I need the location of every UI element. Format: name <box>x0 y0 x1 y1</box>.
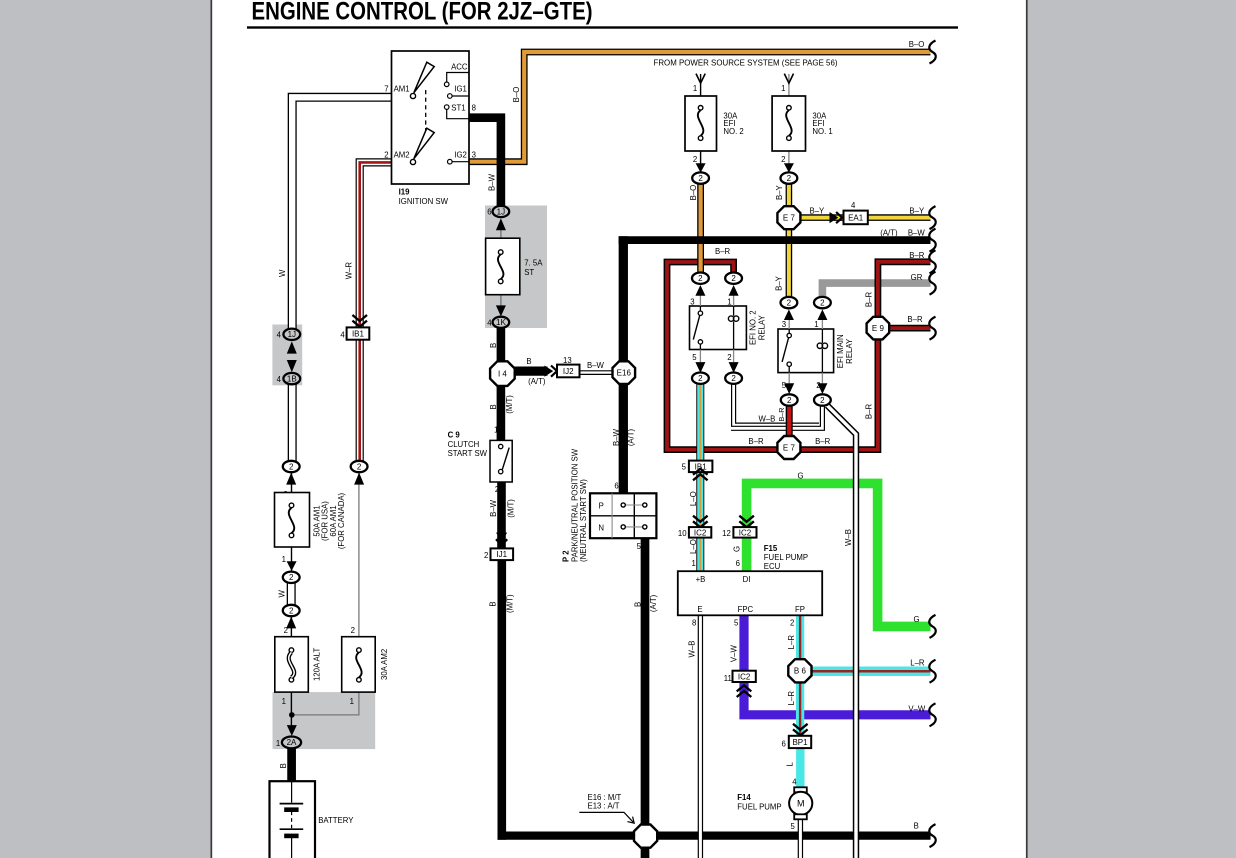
svg-text:2: 2 <box>698 174 703 183</box>
svg-text:E13 : A/T: E13 : A/T <box>588 801 620 810</box>
svg-text:1: 1 <box>494 425 498 434</box>
svg-text:B–O: B–O <box>512 87 521 103</box>
svg-text:B–R: B–R <box>907 315 923 324</box>
arrow down into oval at EFI NO.2 relay pin2 <box>729 362 739 373</box>
svg-text:ENGINE CONTROL (FOR 2JZ–GTE): ENGINE CONTROL (FOR 2JZ–GTE) <box>252 0 593 26</box>
wire B-W from ignition ST1 to 1J connector <box>469 113 501 206</box>
park/neutral switch P contacts <box>621 503 647 507</box>
svg-text:5: 5 <box>682 462 687 471</box>
svg-text:BP1: BP1 <box>792 738 808 747</box>
lead line through 30A AM2 fuse (gray) <box>294 473 359 715</box>
svg-text:FROM POWER SOURCE SYSTEM (SEE: FROM POWER SOURCE SYSTEM (SEE PAGE 56) <box>654 58 838 67</box>
arrow up into 1J left <box>287 341 297 353</box>
ignition switch I19 box <box>392 51 470 184</box>
svg-text:IGNITION SW: IGNITION SW <box>399 197 449 206</box>
connector IJ1 <box>491 548 514 560</box>
title underline <box>247 26 958 28</box>
svg-text:ST: ST <box>524 268 534 277</box>
battery box <box>270 781 316 858</box>
svg-text:F15: F15 <box>764 544 778 553</box>
svg-text:B–R: B–R <box>748 437 764 446</box>
ground junction E16/E13 <box>634 825 657 848</box>
fuse 7.5A ST box <box>486 238 520 295</box>
fuse element 30A AM2 <box>356 648 361 682</box>
svg-text:AM1: AM1 <box>394 84 410 93</box>
wire B-Y from EFI NO.1 fuse through E7 to EFI main relay pin 3 <box>786 184 793 297</box>
arrow up into oval above 50A AM1 <box>286 473 296 485</box>
gray highlight box behind 7.5A ST fuse <box>485 206 547 329</box>
arrow down into oval below 50A AM1 <box>287 561 297 571</box>
svg-text:4: 4 <box>277 331 282 340</box>
clutch start switch contacts <box>499 444 510 474</box>
svg-text:2: 2 <box>384 151 388 160</box>
wire B-W between IJ2 and E16 <box>580 370 614 375</box>
connector IC2 pin 10 <box>689 527 711 538</box>
svg-text:FUEL PUMP: FUEL PUMP <box>764 553 808 562</box>
wire L-R from ECU FP through B6 to BP1 <box>796 615 804 737</box>
svg-text:(M/T): (M/T) <box>506 499 515 518</box>
park/neutral switch N contacts <box>621 525 647 529</box>
svg-text:V–W: V–W <box>908 704 926 713</box>
svg-text:IB1: IB1 <box>352 329 365 338</box>
fuse 30A AM2 box <box>342 637 376 692</box>
svg-text:1: 1 <box>727 297 731 306</box>
svg-text:7. 5A: 7. 5A <box>524 259 543 268</box>
battery internal symbol <box>280 781 304 858</box>
lead line through 50A AM1 fuse <box>291 472 293 571</box>
arrow up into EFI NO.2 relay pin3 oval <box>695 285 705 296</box>
break B-R upper <box>929 250 935 273</box>
break B-Y <box>929 206 935 229</box>
fuel pump motor M <box>789 792 812 815</box>
wire B (M/T) from I4 to clutch start switch <box>497 385 506 440</box>
svg-text:5: 5 <box>734 618 739 627</box>
break B <box>929 824 935 847</box>
chevron arrow down above IB1 left <box>352 315 367 327</box>
svg-text:IC2: IC2 <box>694 528 707 537</box>
svg-text:(M/T): (M/T) <box>505 594 514 613</box>
connector oval 2 above 120A ALT <box>283 605 300 616</box>
svg-text:2: 2 <box>787 298 792 307</box>
svg-text:6: 6 <box>487 208 491 217</box>
connector oval 2 below EFI NO.2 relay pin 5 <box>692 373 709 384</box>
svg-text:5: 5 <box>790 822 795 831</box>
svg-text:3: 3 <box>690 297 694 306</box>
svg-text:1: 1 <box>814 320 818 329</box>
svg-text:FP: FP <box>795 605 805 614</box>
chevron arrow down above BP1 <box>793 724 808 736</box>
svg-text:B–R: B–R <box>777 408 786 422</box>
svg-text:13: 13 <box>563 356 572 365</box>
svg-text:RELAY: RELAY <box>757 314 766 340</box>
svg-text:2: 2 <box>790 618 794 627</box>
svg-text:P 2: P 2 <box>561 550 570 562</box>
fuse element 50A AM1 <box>289 503 294 538</box>
svg-text:2: 2 <box>731 274 736 283</box>
svg-text:IJ2: IJ2 <box>563 367 574 376</box>
junction B6 <box>788 659 811 682</box>
svg-text:F14: F14 <box>737 793 751 802</box>
break GR <box>929 272 935 295</box>
svg-text:L–R: L–R <box>787 635 796 650</box>
svg-text:2: 2 <box>289 462 294 471</box>
svg-text:5: 5 <box>692 353 697 362</box>
chevron arrow up below IB1 <box>693 469 708 481</box>
svg-text:2: 2 <box>787 174 792 183</box>
wire B-O from ignition switch IG2 to power source <box>469 52 931 162</box>
wire W-B from EFI NO.2 relay pin 2 <box>734 382 819 425</box>
svg-text:L–O: L–O <box>689 539 698 554</box>
svg-text:1K: 1K <box>496 318 506 327</box>
junction dot below 120A ALT <box>289 712 295 718</box>
svg-text:IG1: IG1 <box>454 84 467 93</box>
connector oval 2 below 50A AM1 <box>283 572 300 583</box>
svg-text:2: 2 <box>484 551 488 560</box>
lead line into EFI NO.2 fuse <box>700 74 702 172</box>
svg-text:(NEUTRAL START SW): (NEUTRAL START SW) <box>579 479 588 562</box>
fuse 30A EFI NO.2 box <box>685 96 717 151</box>
svg-text:EFI MAIN: EFI MAIN <box>836 334 845 368</box>
fuel pump ECU F15 box <box>678 571 822 615</box>
svg-text:B: B <box>489 404 498 409</box>
page left border <box>211 0 213 858</box>
arrow down into 1B <box>287 360 297 372</box>
break V-W <box>929 703 935 726</box>
fuse 50A AM1 box <box>275 493 310 548</box>
arrow into oval below EFI NO.1 fuse <box>784 163 794 172</box>
svg-text:BATTERY: BATTERY <box>318 816 354 825</box>
svg-text:+B: +B <box>696 575 706 584</box>
svg-text:2: 2 <box>698 374 703 383</box>
ignition switch IG2 contact <box>448 159 469 164</box>
arrow up into EFI main relay pin3 oval <box>784 309 794 320</box>
svg-text:E16: E16 <box>617 369 632 378</box>
arrow down into oval at EFI main relay pin2 <box>817 383 827 394</box>
svg-text:B–R: B–R <box>715 247 731 256</box>
svg-text:RELAY: RELAY <box>845 338 854 364</box>
svg-text:ST1: ST1 <box>451 104 465 113</box>
white page <box>212 0 1027 858</box>
connector oval 1J (W wire) <box>283 329 300 340</box>
svg-text:CLUTCH: CLUTCH <box>448 440 480 449</box>
svg-text:B: B <box>489 601 498 606</box>
lead line into EFI NO.1 fuse (gray) <box>788 74 790 172</box>
svg-text:E 7: E 7 <box>783 214 796 223</box>
connector arrow into IJ1 <box>496 533 507 546</box>
leader arrow to ground junction <box>579 812 634 823</box>
svg-text:L–R: L–R <box>787 691 796 706</box>
connector oval 2 at EFI NO.2 relay pin 3 <box>692 273 709 284</box>
svg-text:4: 4 <box>851 201 856 210</box>
svg-text:2: 2 <box>820 298 825 307</box>
connector EA1 <box>844 211 868 225</box>
svg-text:W–R: W–R <box>345 262 354 280</box>
ignition switch mechanical link (dashed) <box>425 90 427 131</box>
lead lines EFI MAIN relay pins <box>789 320 822 383</box>
svg-text:B–O: B–O <box>909 40 925 49</box>
svg-text:B–R: B–R <box>909 251 925 260</box>
svg-text:START SW: START SW <box>448 449 488 458</box>
gray highlight box behind 1J/1B connectors <box>272 325 302 386</box>
svg-text:1: 1 <box>282 697 286 706</box>
svg-text:2: 2 <box>820 396 825 405</box>
connector IJ2 <box>557 365 580 378</box>
svg-text:1J: 1J <box>288 330 296 339</box>
svg-text:1: 1 <box>781 84 785 93</box>
fuse 120A ALT box <box>275 637 309 692</box>
relay EFI NO.2 switch <box>693 306 702 350</box>
wire L-O from EFI NO.2 relay pin 5 to fuel pump ECU +B <box>696 382 704 571</box>
chevron arrow down above IC2 pin10 <box>693 516 708 528</box>
svg-text:(A/T): (A/T) <box>880 228 898 237</box>
svg-text:B–Y: B–Y <box>909 207 925 216</box>
arrowhead into EFI NO.1 fuse <box>784 74 793 84</box>
svg-text:2: 2 <box>781 155 785 164</box>
junction E7 (lower) <box>777 436 800 459</box>
fuse element 30A EFI NO.1 <box>786 106 791 141</box>
ignition switch ACC contact <box>444 73 468 87</box>
relay EFI NO.2 box <box>690 306 747 350</box>
wire W from 1B connector down <box>288 384 297 462</box>
ignition switch AM1 contact and rotor lever <box>410 62 434 98</box>
connector oval 2 below EFI main relay pin 2 <box>814 394 831 405</box>
wire G (green) fuel pump ECU DI circuit <box>747 483 931 626</box>
wire B (A/T) from I4 to IJ2 connector <box>514 367 547 376</box>
svg-text:2A: 2A <box>287 738 297 747</box>
fuse element 7.5A ST <box>498 250 503 284</box>
svg-text:B–Y: B–Y <box>775 275 784 291</box>
connector oval 2 below EFI NO.2 relay pin 2 <box>725 373 742 384</box>
relay EFI NO.2 coil <box>728 306 738 350</box>
svg-text:B–W: B–W <box>587 361 605 370</box>
relay EFI MAIN coil <box>817 329 827 373</box>
svg-text:B: B <box>526 357 531 366</box>
wire GR (gray) to EFI main relay pin 1 <box>822 283 930 299</box>
svg-text:B–Y: B–Y <box>775 184 784 200</box>
svg-text:W: W <box>278 269 287 277</box>
wire B ground bus horizontal to break <box>498 831 931 839</box>
connector oval 2 at EFI main relay pin 3 <box>781 297 798 308</box>
svg-text:2: 2 <box>351 626 355 635</box>
svg-text:M: M <box>797 799 805 809</box>
svg-text:2: 2 <box>495 485 499 494</box>
svg-text:2: 2 <box>727 353 731 362</box>
svg-text:3: 3 <box>472 151 476 160</box>
arrowhead into EFI NO.2 fuse <box>696 74 705 84</box>
ignition switch IG1 contact <box>448 94 469 99</box>
svg-text:AM2: AM2 <box>394 151 410 160</box>
junction I4 <box>490 361 515 386</box>
svg-text:L: L <box>786 762 795 767</box>
break L-R <box>929 660 935 683</box>
svg-text:PARK/NEUTRAL POSITION SW: PARK/NEUTRAL POSITION SW <box>570 448 579 562</box>
svg-text:B: B <box>279 763 288 768</box>
svg-text:10: 10 <box>678 529 687 538</box>
svg-text:B: B <box>633 602 642 607</box>
svg-text:I19: I19 <box>399 187 411 196</box>
wire B-R stub from E9 to break <box>886 325 931 332</box>
page right border <box>1026 0 1028 858</box>
svg-text:FPC: FPC <box>738 605 754 614</box>
svg-text:DI: DI <box>743 575 751 584</box>
svg-text:3: 3 <box>782 320 786 329</box>
arrow down into 2A <box>287 725 297 736</box>
wire V-W (violet) from ECU FPC to break <box>744 615 931 715</box>
arrow into oval below EFI NO.2 fuse <box>696 163 706 172</box>
svg-text:NO. 1: NO. 1 <box>812 127 832 136</box>
svg-text:2: 2 <box>289 573 294 582</box>
svg-text:8: 8 <box>692 618 696 627</box>
svg-text:W–B: W–B <box>844 529 853 546</box>
svg-text:30A AM2: 30A AM2 <box>380 649 389 680</box>
svg-text:N: N <box>598 523 604 532</box>
svg-text:6: 6 <box>736 559 740 568</box>
svg-text:(A/T): (A/T) <box>649 594 658 612</box>
connector oval 2 below EFI NO.2 fuse <box>692 172 709 183</box>
clutch start switch box <box>490 440 512 482</box>
fuse 30A EFI NO.1 box <box>772 96 805 151</box>
chevron arrow down above IC2 pin12 <box>739 516 754 528</box>
wire B-W (A/T) horizontal to break <box>619 236 931 244</box>
svg-text:4: 4 <box>487 319 492 328</box>
wire B (M/T) from IJ1 down to ground wire <box>497 560 506 840</box>
ignition switch AM2 contact and rotor lever <box>410 128 434 164</box>
svg-text:W–B: W–B <box>688 641 697 658</box>
fuse element 30A EFI NO.2 <box>698 106 703 141</box>
svg-text:G: G <box>732 546 741 552</box>
svg-text:NO. 2: NO. 2 <box>723 127 743 136</box>
break B-O <box>929 41 935 64</box>
wire W-B from EFI main relay pin 2 (lower run) <box>731 404 822 428</box>
connector arrow into IJ2 <box>544 366 557 377</box>
wire W-B from ECU E pin to page bottom <box>698 615 703 858</box>
svg-text:6: 6 <box>614 482 618 491</box>
relay EFI MAIN switch <box>782 329 791 373</box>
arrow down into oval at EFI main relay pin5 <box>784 383 794 394</box>
svg-text:G: G <box>913 615 919 624</box>
connector oval 2 below EFI main relay pin 5 <box>781 394 798 405</box>
fuel pump motor terminal (top) <box>794 787 807 792</box>
svg-text:P: P <box>599 501 604 510</box>
gray highlight box behind ALT/AM2 fuse bottoms and 2A connector <box>273 692 376 749</box>
wire L from BP1 to fuel pump <box>796 748 804 791</box>
svg-text:2: 2 <box>731 374 736 383</box>
arrow up into 1J <box>496 218 506 230</box>
wire W-R from IB1 down <box>356 339 364 462</box>
lead lines EFI NO.2 relay pins <box>700 296 733 363</box>
svg-text:1: 1 <box>276 739 280 748</box>
connector IB1 (W-R) <box>347 327 370 339</box>
svg-text:1B: 1B <box>287 374 297 383</box>
relay EFI MAIN box <box>778 329 834 373</box>
connector BP1 <box>789 736 811 748</box>
svg-text:IG2: IG2 <box>454 151 467 160</box>
svg-text:B–O: B–O <box>689 185 698 201</box>
svg-text:B–R: B–R <box>865 292 874 308</box>
arrow up into oval above 120A ALT <box>286 617 296 629</box>
svg-text:IC2: IC2 <box>738 672 751 681</box>
svg-text:4: 4 <box>340 331 345 340</box>
svg-text:2: 2 <box>693 155 697 164</box>
connector arrow into EA1 <box>830 212 843 223</box>
arrow up into EFI main relay pin1 oval <box>817 309 827 320</box>
junction E16 <box>613 361 636 384</box>
svg-text:12: 12 <box>722 529 731 538</box>
break B-W (A/T) <box>929 229 935 252</box>
connector oval 2 at EFI NO.2 relay pin 1 <box>725 273 742 284</box>
connector oval 2 below EFI NO.1 fuse <box>781 172 798 183</box>
chevron arrow up below IC2 pin11 <box>737 685 752 697</box>
svg-text:6: 6 <box>782 739 786 748</box>
svg-text:1J: 1J <box>497 207 505 216</box>
fuse element 120A ALT (heavy) <box>289 648 294 682</box>
lead line through 120A ALT fuse <box>290 617 292 727</box>
svg-text:IJ1: IJ1 <box>496 550 507 559</box>
svg-text:IC2: IC2 <box>739 528 752 537</box>
svg-text:FUEL PUMP: FUEL PUMP <box>737 803 781 812</box>
svg-text:B 6: B 6 <box>794 667 807 676</box>
wire B from 2A connector to battery <box>287 748 296 782</box>
svg-text:I 4: I 4 <box>498 370 507 379</box>
fuel pump motor terminal (bottom) <box>794 814 807 819</box>
svg-text:5: 5 <box>637 542 642 551</box>
svg-text:B: B <box>914 822 919 831</box>
wire W-B from fuel pump to ground bus <box>798 820 803 858</box>
connector IC2 pin 12 <box>733 527 756 538</box>
connector oval 1K <box>493 317 510 328</box>
svg-text:(A/T): (A/T) <box>528 377 546 386</box>
wire B from 1K connector to I4 <box>497 328 506 363</box>
svg-text:4: 4 <box>277 375 282 384</box>
svg-text:B: B <box>489 343 498 348</box>
arrow down into oval at EFI NO.2 relay pin5 <box>695 362 705 373</box>
park/neutral position switch box <box>590 493 656 538</box>
svg-text:ECU: ECU <box>764 562 781 571</box>
svg-text:(M/T): (M/T) <box>505 395 514 414</box>
connector oval 2 at EFI main relay pin 1 <box>814 297 831 308</box>
svg-text:W–B: W–B <box>758 415 775 424</box>
break B-R from E9 <box>929 317 935 340</box>
svg-text:L–R: L–R <box>910 659 925 668</box>
svg-text:GR: GR <box>911 273 923 282</box>
wire B-Y from E7 to EA1 and break <box>800 214 931 221</box>
svg-text:7: 7 <box>384 84 388 93</box>
wire B-O from EFI NO.2 fuse to relay pin 3 <box>697 184 704 273</box>
svg-text:E 9: E 9 <box>872 324 885 333</box>
svg-text:120A ALT: 120A ALT <box>313 648 322 681</box>
svg-text:B–W: B–W <box>489 499 498 517</box>
svg-text:E: E <box>697 605 702 614</box>
junction E9 <box>867 317 890 340</box>
svg-text:(A/T): (A/T) <box>626 428 635 446</box>
connector IB1 (EFI circuit) <box>689 461 713 473</box>
svg-text:1: 1 <box>282 555 286 564</box>
svg-text:B–Y: B–Y <box>810 207 826 216</box>
connector oval 2 above 50A AM1 <box>283 461 300 472</box>
wire W between connectors above 120A ALT <box>287 580 296 608</box>
svg-text:B–R: B–R <box>815 437 831 446</box>
wire B-W (A/T) vertical through E16 to park/neutral position switch <box>619 236 628 493</box>
wire B-W (M/T) from clutch start switch to IJ1 <box>497 482 506 549</box>
park/neutral switch dividers <box>590 493 656 538</box>
svg-text:8: 8 <box>472 104 476 113</box>
svg-text:B–W: B–W <box>487 173 496 191</box>
wire W-R from ignition AM2 to IB1 <box>360 162 392 329</box>
wire W-B ground drop from EFI main relay pin 2 to page bottom <box>827 405 856 858</box>
svg-text:1: 1 <box>350 697 354 706</box>
svg-text:11: 11 <box>724 674 732 683</box>
arrow up into EFI NO.2 relay pin1 oval <box>729 285 739 296</box>
